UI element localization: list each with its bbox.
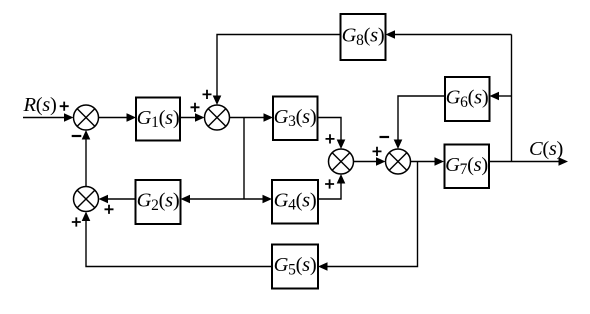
summing junction S5 — [74, 187, 99, 212]
wire S1 to G1 — [99, 113, 137, 122]
block G3 — [273, 97, 318, 141]
summing junction S1 — [74, 105, 99, 130]
sign + at S4 left input — [373, 147, 382, 156]
wire G4 output up into S3 bottom — [318, 174, 345, 199]
wire G1 to summer S2 — [180, 113, 205, 122]
sign + at S5 bottom input — [72, 217, 81, 226]
block G2 — [136, 180, 181, 224]
wire G7 output to C(s) — [489, 157, 568, 166]
block G6 — [445, 77, 490, 121]
wire G6 to summer S4 top — [394, 96, 445, 149]
wire branch down from S4-G7 line to G5 — [318, 162, 418, 271]
summing junction S4 — [386, 149, 411, 174]
sign - at S1 lower input — [72, 135, 82, 137]
wire G3 to summer S3 — [318, 118, 346, 150]
wire feedback to G8 input — [386, 30, 512, 39]
svg-text:G2(s): G2(s) — [137, 190, 180, 214]
svg-text:G3(s): G3(s) — [274, 106, 317, 130]
svg-text:G5(s): G5(s) — [274, 254, 317, 278]
sign + at S1 input — [60, 102, 69, 111]
svg-text:G8(s): G8(s) — [342, 25, 385, 49]
summing junction S2 — [205, 105, 230, 130]
svg-text:G4(s): G4(s) — [274, 189, 317, 213]
sign - at S4 top input — [380, 136, 390, 138]
block G1 — [136, 98, 180, 141]
sign + at S2 left input — [191, 103, 200, 112]
svg-text:R(s): R(s) — [23, 94, 57, 116]
wire S3 to summer S4 — [354, 157, 386, 166]
wire G8 output down into S2 top — [213, 35, 341, 106]
wire S2 to G3 with branch node — [230, 113, 274, 122]
sign + at S2 top input — [203, 90, 212, 99]
wire feedback to G6 input — [490, 92, 512, 101]
block G7 — [445, 145, 490, 189]
wire G5 output to summer S5 bottom — [82, 212, 272, 267]
svg-text:G6(s): G6(s) — [446, 87, 489, 111]
block G8 — [341, 14, 386, 60]
svg-text:G7(s): G7(s) — [445, 154, 488, 178]
wire branch to G2 and G4 — [181, 195, 273, 204]
sign + at S3 top input — [326, 134, 335, 143]
svg-text:C(s): C(s) — [529, 138, 563, 160]
sign + at S3 bottom input — [325, 179, 334, 188]
wire branch down from S2-G3 line — [243, 118, 245, 200]
block G4 — [272, 180, 318, 224]
wire G2 output to summer S5 — [99, 195, 136, 204]
sign + at S5 right input — [105, 205, 114, 214]
wire feedback tap up from output line — [511, 35, 513, 162]
block G5 — [272, 245, 318, 289]
wire S5 output up into S1 bottom — [82, 130, 91, 187]
svg-text:G1(s): G1(s) — [137, 107, 180, 131]
wire input R to summer S1 — [23, 113, 74, 122]
summing junction S3 — [329, 149, 354, 174]
wire S4 to G7 with branch — [411, 157, 445, 166]
